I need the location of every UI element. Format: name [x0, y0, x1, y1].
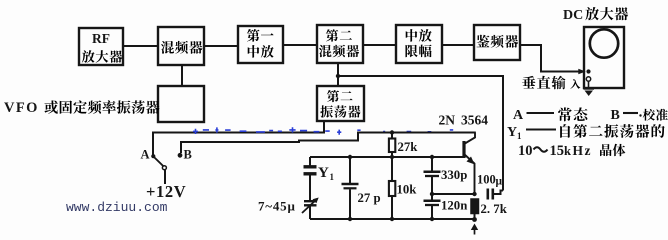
svg-text:Hz: Hz [573, 143, 593, 158]
svg-text:+12V: +12V [146, 182, 186, 201]
wire mixer1 to IF1 [204, 45, 238, 47]
label Y1 [318, 165, 335, 182]
svg-text:Y: Y [507, 125, 517, 140]
left rail continues [309, 175, 311, 200]
label: vertical input [522, 76, 580, 90]
block: mixer 1 [158, 27, 204, 65]
capacitor 120n [424, 194, 441, 219]
scope ground terminal [586, 77, 590, 81]
bottom rail [310, 218, 475, 220]
svg-text:B: B [611, 108, 620, 123]
svg-text:VFO: VFO [4, 100, 39, 116]
node 27p top [348, 155, 352, 159]
node bottom rail end [472, 217, 477, 222]
base rail (tank top wire) [310, 156, 464, 158]
wire pole to +12V [164, 170, 166, 184]
label: DC amplifier (scope) [563, 7, 628, 23]
node: tap junction [336, 74, 340, 78]
svg-text:330p: 330p [441, 168, 467, 182]
block: discriminator [474, 25, 520, 60]
contact B lead [180, 142, 182, 153]
wire IF1 to mixer2 [283, 44, 317, 46]
block: mixer 2 [317, 25, 363, 63]
svg-text:DC: DC [563, 8, 583, 23]
VFO box (empty) [158, 86, 204, 122]
capacitor 27p [342, 157, 359, 219]
coupling capacitor 100u [488, 189, 503, 200]
wire mixer2 to limiter [363, 44, 396, 46]
resistor 10k [389, 157, 395, 219]
oscilloscope box [584, 27, 624, 88]
svg-text:μ: μ [496, 176, 503, 188]
svg-text:2. 7k: 2. 7k [481, 202, 508, 216]
svg-text:27k: 27k [398, 140, 419, 154]
resistor 2.7k (dark) [471, 199, 479, 219]
svg-text:15: 15 [550, 143, 565, 159]
svg-text:100: 100 [477, 173, 496, 187]
block: RF amplifier [79, 28, 123, 65]
svg-text:k: k [564, 144, 571, 158]
wire switch throw B to oscillator top rail [180, 133, 476, 143]
svg-text:10: 10 [518, 143, 533, 159]
legend line 2: Y1 from second oscillator [507, 124, 665, 141]
node 27k top on rail [390, 130, 394, 134]
crystal Y1 [304, 167, 317, 174]
arrowhead into scope input [578, 69, 586, 75]
svg-text:3564: 3564 [461, 113, 488, 128]
wire RF amp to mixer1 [123, 45, 158, 47]
svg-text:Y: Y [318, 165, 329, 181]
node base rail / 27k-10k junction [390, 155, 394, 159]
svg-text:27 p: 27 p [358, 191, 381, 205]
wire mixer2 bottom to oscillator2 top with tap [337, 63, 339, 86]
svg-text:B: B [184, 148, 192, 162]
wire tap to calibrator output (top horizontal + right vertical) [338, 76, 503, 191]
wire trimmer to bottom rail [309, 206, 311, 220]
scope ground symbol [584, 81, 595, 96]
emitter node wire [432, 193, 475, 195]
svg-text:1: 1 [517, 131, 522, 141]
node 330p top [430, 155, 434, 159]
svg-text:A: A [513, 108, 524, 123]
label: VFO or fixed frequency oscillator [4, 100, 160, 116]
arrow to negative below [471, 224, 478, 235]
svg-text:1: 1 [330, 172, 335, 182]
capacitor 330p [424, 157, 441, 194]
legend line 1: A normal, B calibrate [513, 107, 668, 123]
svg-text:120n: 120n [441, 199, 467, 213]
svg-text:7~45μ: 7~45μ [258, 199, 296, 214]
left rail [309, 157, 311, 166]
transistor Q1 2N3564 [464, 133, 475, 195]
svg-text:10k: 10k [397, 183, 418, 197]
wire mixer1 to VFO box [181, 65, 183, 86]
resistor 27k [389, 133, 395, 158]
wire limiter to discriminator [442, 44, 474, 46]
switch pole circle [162, 166, 166, 170]
block: IF limiter [396, 25, 442, 63]
svg-text:www.dziuu.com: www.dziuu.com [66, 200, 168, 215]
block: first IF amp [238, 26, 283, 63]
wire discriminator to scope vertical input [520, 45, 583, 72]
svg-text:RF: RF [92, 31, 110, 46]
scope CRT circle [590, 29, 618, 57]
node bottom rail joints [348, 217, 352, 221]
svg-text:2N: 2N [439, 113, 456, 128]
blue watermark dashes on wire [193, 127, 453, 135]
legend line 3: 10~15kHz crystal [518, 143, 625, 159]
node B contact [178, 153, 183, 158]
block: second oscillator [317, 86, 364, 121]
wire switch throw A to oscillator2 bottom [153, 121, 324, 157]
svg-text:A: A [141, 148, 150, 162]
switch arm A to pole [151, 154, 155, 158]
trimmer capacitor 7~45u [302, 198, 319, 214]
